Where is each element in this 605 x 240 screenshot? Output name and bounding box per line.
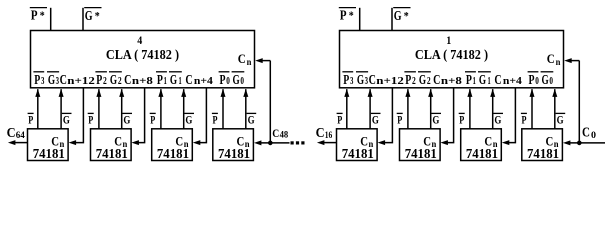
wire Cn+8 from CLA 4 down to ALU #2 Cn, left arrow: [131, 88, 144, 145]
wire Cn+8 from CLA 1 down to ALU #6 Cn, left arrow: [440, 88, 453, 145]
svg-text:*: *: [349, 8, 354, 22]
svg-text:G: G: [494, 112, 501, 126]
svg-text:n+8: n+8: [441, 76, 462, 87]
ALU #2 pin Cn label: [114, 134, 127, 149]
wire Cn+4 from CLA 4 down to ALU #3 Cn, left arrow: [193, 88, 207, 145]
svg-text:0: 0: [549, 76, 553, 87]
net P&#773;* label (group propagate): [339, 8, 356, 24]
svg-text:74181: 74181: [157, 147, 189, 162]
ALU #5 part label "74181": [342, 147, 374, 162]
svg-text:3: 3: [56, 76, 59, 87]
net P&#773; label at ALU #4: [212, 112, 218, 126]
ALU chip 74181 #7 box: [461, 129, 502, 161]
net G&#773; label at ALU #3: [184, 112, 194, 126]
net P&#773; label at ALU #1: [28, 112, 34, 126]
svg-text:C: C: [316, 126, 325, 141]
CLA 4 pin P&#773;1 label: [156, 72, 167, 88]
CLA 1 pin Cn label: [547, 51, 561, 67]
svg-text:G: G: [110, 73, 117, 88]
wire G&#773;2 from ALU #6 up to CLA 1: [428, 89, 433, 129]
wire P&#773;3 from ALU #5 up to CLA 1: [344, 89, 349, 129]
svg-text:P: P: [459, 112, 464, 126]
wire P&#773;1 from ALU #7 up to CLA 1: [467, 89, 472, 129]
net G&#773; label at ALU #1: [62, 112, 72, 126]
wire G&#773;* stub from CLA 1 top: [391, 8, 393, 31]
svg-text:G: G: [357, 73, 364, 88]
ALU #5 pin Cn label: [360, 134, 373, 149]
svg-text:4: 4: [137, 33, 142, 47]
net G&#773; label at ALU #7: [493, 112, 503, 126]
junction dot on C0 net: [577, 141, 582, 146]
CLA 4 pin G&#773;1 label: [169, 72, 182, 88]
wire G&#773;2 from ALU #2 up to CLA 4: [119, 89, 124, 129]
net P&#773; label at ALU #2: [88, 112, 94, 126]
ALU #4 pin Cn label: [237, 134, 250, 149]
CLA chip "4" (74182) box: [31, 31, 255, 88]
CLA 4 pin Cn label: [238, 51, 252, 67]
wire C48 horizontal into ALU #4 Cn, left arrow: [254, 140, 290, 145]
net P&#773; label at ALU #6: [397, 112, 403, 126]
svg-text:P: P: [397, 112, 402, 126]
junction dot on C48 net: [268, 141, 273, 146]
wire P&#773;0 from ALU #4 up to CLA 4: [221, 89, 226, 129]
svg-text:1: 1: [473, 76, 476, 87]
svg-text:P: P: [88, 112, 93, 126]
CLA 1 pin P&#773;0 label: [528, 72, 539, 88]
svg-text:0: 0: [240, 76, 244, 87]
net C48 carry-in label: [272, 128, 288, 141]
svg-text:*: *: [40, 8, 45, 22]
CLA 1 pin P&#773;2 label: [404, 72, 416, 88]
wire Cn+4 from CLA 1 down to ALU #7 Cn, left arrow: [502, 88, 516, 145]
wire P&#773;2 from ALU #6 up to CLA 1: [405, 89, 410, 129]
svg-text:74181: 74181: [527, 147, 559, 162]
svg-text:P: P: [529, 73, 535, 88]
CLA 1 designator label: [446, 33, 451, 47]
net G&#773; label at ALU #4: [247, 112, 257, 126]
ALU chip 74181 #5 box: [337, 129, 378, 161]
svg-text:C: C: [124, 73, 131, 88]
svg-text:G: G: [419, 73, 426, 88]
svg-text:C: C: [60, 73, 67, 88]
svg-text:G: G: [372, 112, 379, 126]
wire P&#773;* stub from CLA 1 top: [359, 8, 361, 31]
ALU chip 74181 #3 box: [152, 129, 193, 161]
svg-text:G: G: [557, 112, 564, 126]
wire Cn+12 from CLA 1 down to ALU #5 Cn, left arrow: [378, 88, 393, 145]
svg-text:n+4: n+4: [503, 76, 522, 87]
ALU chip 74181 #6 box: [400, 129, 441, 161]
svg-text:2: 2: [427, 76, 431, 87]
svg-text:G: G: [85, 9, 93, 24]
svg-text:n+4: n+4: [194, 76, 213, 87]
svg-text:74181: 74181: [405, 147, 437, 162]
svg-text:1: 1: [446, 33, 451, 47]
svg-text:1: 1: [488, 76, 491, 87]
svg-text:G: G: [432, 112, 439, 126]
svg-text:1: 1: [164, 76, 167, 87]
wire G&#773;0 from ALU #8 up to CLA 1: [552, 89, 557, 129]
svg-text:P: P: [466, 73, 472, 88]
svg-text:C: C: [433, 73, 440, 88]
svg-text:n: n: [556, 57, 561, 67]
net C64 carry-out label: [7, 126, 25, 141]
CLA 1 pin Cn+12 label: [369, 73, 404, 88]
svg-text:C: C: [547, 51, 555, 66]
svg-text:P: P: [96, 73, 102, 88]
svg-text:G: G: [248, 112, 255, 126]
svg-text:C: C: [238, 51, 246, 66]
svg-text:74181: 74181: [466, 147, 498, 162]
svg-text:P: P: [405, 73, 411, 88]
wire P&#773;* stub from CLA 4 top: [50, 8, 52, 31]
net G&#773;* label (group generate): [84, 8, 101, 24]
ALU #3 pin Cn label: [175, 134, 188, 149]
ALU #1 pin Cn label: [51, 134, 64, 149]
svg-text:CLA ( 74182 ): CLA ( 74182 ): [106, 48, 179, 63]
svg-text:48: 48: [280, 131, 289, 141]
svg-text:C: C: [272, 128, 279, 140]
svg-text:74181: 74181: [218, 147, 250, 162]
CLA 4 pin G&#773;3 label: [47, 72, 59, 88]
ALU chip 74181 #1 box: [28, 129, 69, 161]
ALU #2 part label "74181": [96, 147, 128, 162]
svg-text:P: P: [150, 112, 155, 126]
ALU #7 pin Cn label: [484, 134, 497, 149]
net G&#773; label at ALU #6: [431, 112, 441, 126]
svg-text:G: G: [48, 73, 55, 88]
net C16 carry-out label: [316, 126, 333, 141]
svg-text:P: P: [220, 73, 226, 88]
wire C0 horizontal into ALU #8 Cn, left arrow: [563, 140, 605, 145]
CLA 1 pin G&#773;1 label: [478, 72, 491, 88]
CLA 1 pin Cn+4 label: [494, 73, 522, 88]
ALU #6 part label "74181": [405, 147, 437, 162]
wire G&#773;3 from ALU #1 up to CLA 4: [59, 89, 64, 129]
net G&#773;* label (group generate): [393, 8, 410, 24]
net P&#773; label at ALU #8: [521, 112, 527, 126]
svg-text:C: C: [582, 125, 590, 140]
svg-text:P: P: [343, 73, 349, 88]
svg-text:2: 2: [412, 76, 416, 87]
svg-text:P: P: [213, 112, 218, 126]
svg-text:n+8: n+8: [132, 76, 153, 87]
svg-text:C: C: [185, 73, 192, 88]
wire C64 carry-out from ALU #1, left arrow: [8, 140, 28, 145]
CLA 1 part label "CLA ( 74182 )": [415, 48, 488, 63]
svg-text:*: *: [404, 9, 409, 23]
CLA 4 pin Cn+4 label: [185, 73, 213, 88]
svg-text:2: 2: [103, 76, 107, 87]
CLA 4 pin G&#773;0 label: [232, 72, 245, 88]
ALU #8 pin Cn label: [546, 134, 559, 149]
svg-text:C: C: [494, 73, 501, 88]
svg-text:G: G: [233, 73, 240, 88]
svg-text:P: P: [31, 9, 38, 24]
svg-text:74181: 74181: [33, 147, 65, 162]
svg-text:P: P: [522, 112, 527, 126]
svg-text:3: 3: [41, 76, 44, 87]
wire P&#773;1 from ALU #3 up to CLA 4: [158, 89, 163, 129]
ALU #1 part label "74181": [33, 147, 65, 162]
CLA 1 pin G&#773;2 label: [418, 72, 431, 88]
svg-text:G: G: [394, 9, 402, 24]
wire G&#773;3 from ALU #5 up to CLA 1: [368, 89, 373, 129]
CLA 4 pin Cn+12 label: [60, 73, 95, 88]
ellipsis dots (chain continues): [291, 141, 305, 144]
svg-text:n+12: n+12: [67, 76, 95, 87]
svg-text:P: P: [34, 73, 40, 88]
CLA 1 pin G&#773;0 label: [541, 72, 554, 88]
wire Cn+12 from CLA 4 down to ALU #1 Cn, left arrow: [69, 88, 84, 145]
wire G&#773;0 from ALU #4 up to CLA 4: [243, 89, 248, 129]
svg-text:*: *: [95, 9, 100, 23]
wire C16 carry-out from ALU #5, left arrow: [317, 140, 337, 145]
svg-text:0: 0: [535, 76, 539, 87]
CLA 4 pin Cn+8 label: [124, 73, 153, 88]
svg-text:3: 3: [365, 76, 368, 87]
net C0 carry-in label: [582, 125, 596, 140]
svg-text:G: G: [185, 112, 192, 126]
net P&#773; label at ALU #3: [150, 112, 156, 126]
ALU chip 74181 #2 box: [91, 129, 132, 161]
wire G&#773;1 from ALU #3 up to CLA 4: [181, 89, 186, 129]
CLA 4 designator label: [137, 33, 142, 47]
svg-text:P: P: [28, 112, 33, 126]
CLA 4 pin P&#773;0 label: [219, 72, 230, 88]
svg-text:74181: 74181: [96, 147, 128, 162]
svg-text:n: n: [247, 57, 252, 67]
CLA 1 pin G&#773;3 label: [356, 72, 368, 88]
CLA 1 pin P&#773;1 label: [465, 72, 476, 88]
svg-text:n+12: n+12: [376, 76, 404, 87]
wire G&#773;1 from ALU #7 up to CLA 1: [490, 89, 495, 129]
wire CLA 4 Cn input elbow from carry-in net, left arrow: [255, 58, 270, 143]
net P&#773; label at ALU #7: [459, 112, 465, 126]
ALU #4 part label "74181": [218, 147, 250, 162]
CLA chip "1" (74182) box: [340, 31, 564, 88]
ALU #7 part label "74181": [466, 147, 498, 162]
net P&#773;* label (group propagate): [30, 8, 47, 24]
svg-text:G: G: [63, 112, 70, 126]
wire G&#773;* stub from CLA 4 top: [82, 8, 84, 31]
svg-text:G: G: [479, 73, 486, 88]
wire P&#773;3 from ALU #1 up to CLA 4: [35, 89, 40, 129]
svg-text:CLA ( 74182 ): CLA ( 74182 ): [415, 48, 488, 63]
CLA 4 pin P&#773;3 label: [33, 72, 44, 88]
svg-text:P: P: [157, 73, 163, 88]
svg-text:G: G: [542, 73, 549, 88]
svg-text:G: G: [170, 73, 177, 88]
svg-text:C: C: [369, 73, 376, 88]
svg-text:3: 3: [350, 76, 353, 87]
svg-text:G: G: [123, 112, 130, 126]
svg-text:74181: 74181: [342, 147, 374, 162]
net G&#773; label at ALU #2: [122, 112, 132, 126]
svg-text:0: 0: [591, 131, 596, 141]
svg-text:64: 64: [16, 131, 25, 141]
svg-text:1: 1: [179, 76, 182, 87]
wire CLA 1 Cn input elbow from carry-in net, left arrow: [564, 58, 579, 143]
CLA 1 pin P&#773;3 label: [342, 72, 353, 88]
ALU #8 part label "74181": [527, 147, 559, 162]
ALU #3 part label "74181": [157, 147, 189, 162]
ALU #6 pin Cn label: [423, 134, 436, 149]
CLA 1 pin Cn+8 label: [433, 73, 462, 88]
CLA 4 pin G&#773;2 label: [109, 72, 122, 88]
svg-text:P: P: [337, 112, 342, 126]
net P&#773; label at ALU #5: [337, 112, 343, 126]
ALU chip 74181 #8 box: [522, 129, 563, 161]
net G&#773; label at ALU #8: [556, 112, 566, 126]
svg-text:2: 2: [118, 76, 122, 87]
svg-text:P: P: [340, 9, 347, 24]
ALU chip 74181 #4 box: [213, 129, 254, 161]
svg-text:16: 16: [325, 131, 333, 141]
svg-text:C: C: [7, 126, 16, 141]
CLA 4 pin P&#773;2 label: [95, 72, 107, 88]
CLA 4 part label "CLA ( 74182 )": [106, 48, 179, 63]
svg-text:0: 0: [226, 76, 230, 87]
wire P&#773;0 from ALU #8 up to CLA 1: [530, 89, 535, 129]
net G&#773; label at ALU #5: [371, 112, 381, 126]
wire P&#773;2 from ALU #2 up to CLA 4: [96, 89, 101, 129]
